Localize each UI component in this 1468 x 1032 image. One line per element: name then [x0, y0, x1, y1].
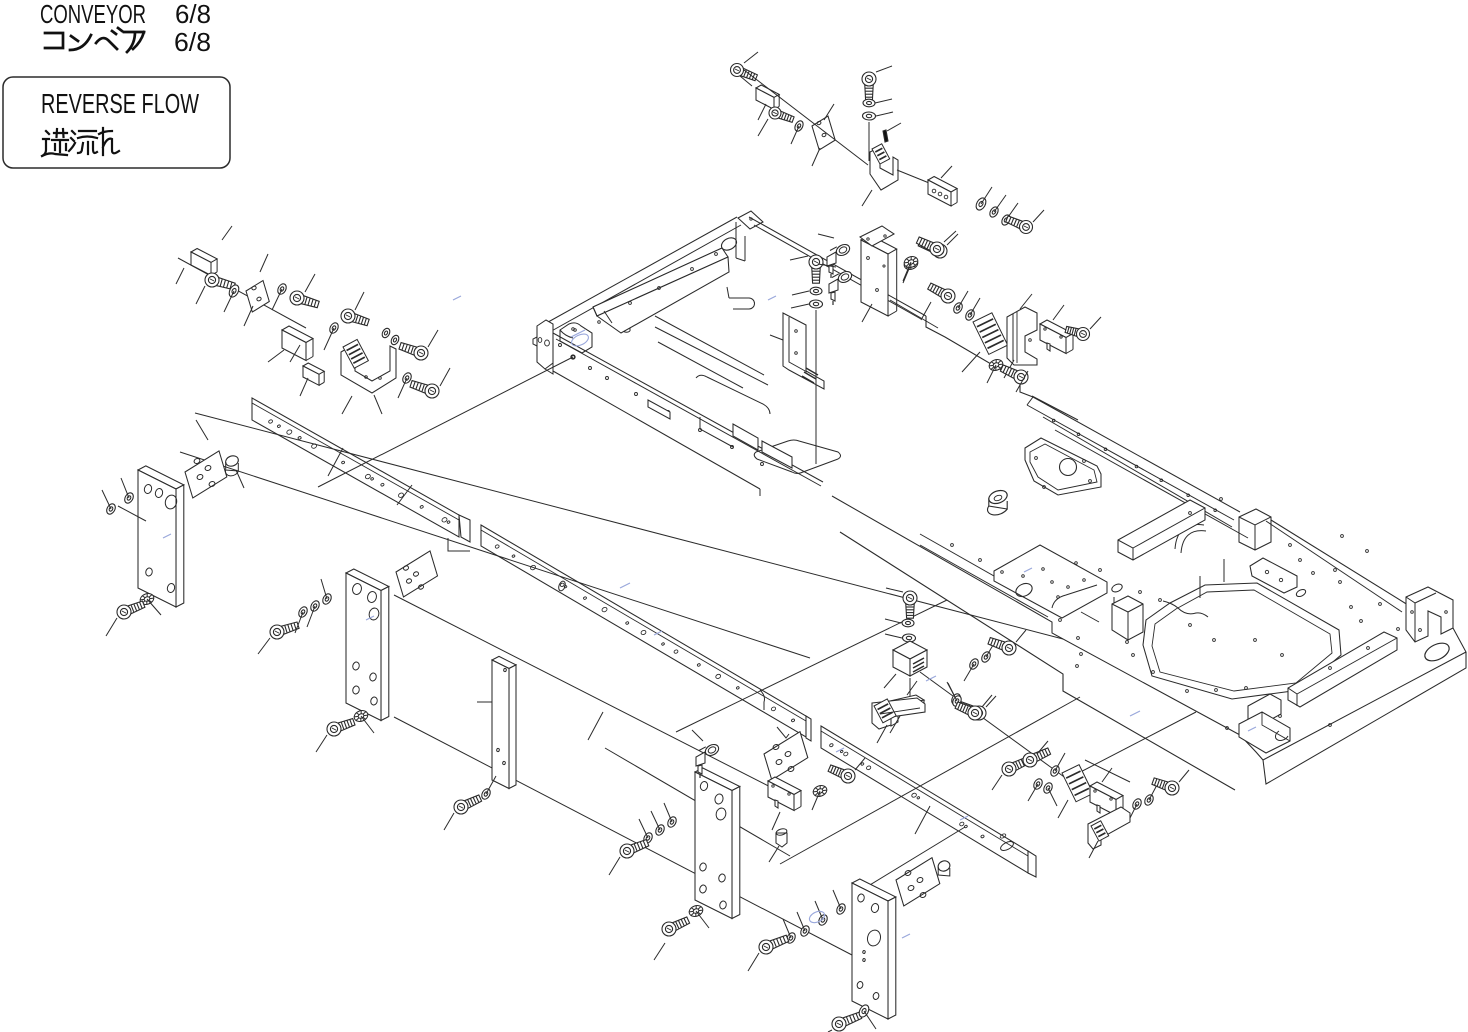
vbolt M: [903, 591, 917, 618]
connector block: [303, 363, 324, 385]
elbow V2: [829, 269, 854, 305]
bolt P4: [828, 765, 855, 783]
leader: [692, 730, 703, 741]
leader: [964, 664, 974, 681]
punched plate p5: [896, 858, 940, 906]
leader: [295, 612, 303, 633]
leader: [1053, 305, 1064, 320]
left pillar punched plate: [185, 451, 227, 498]
leader: [196, 286, 205, 304]
leader: [797, 912, 805, 931]
bolt W1: [916, 237, 944, 256]
svg-text:CONVEYOR: CONVEYOR: [40, 0, 146, 29]
svg-text:REVERSE FLOW: REVERSE FLOW: [41, 88, 199, 119]
bolt BR1: [1002, 757, 1030, 776]
bolt M2: [959, 702, 986, 720]
leader: [222, 226, 232, 240]
microswitch BR: [1090, 782, 1123, 816]
washer: [227, 283, 241, 298]
leader: [260, 254, 268, 272]
washer: [328, 321, 340, 334]
leader: [307, 606, 315, 627]
title CONVEYOR 6/8: [40, 0, 211, 29]
bolt BC: [759, 935, 789, 954]
leader: [147, 599, 161, 615]
rail leader 4: [328, 448, 343, 476]
washer: [1000, 213, 1012, 226]
leader: [176, 268, 184, 284]
washer: [974, 196, 988, 211]
bolt BL2: [662, 917, 690, 936]
fold line long shallow: [195, 413, 1063, 639]
leader: [987, 365, 996, 383]
leader: [812, 791, 820, 810]
washer: [642, 831, 654, 844]
washer: [817, 913, 829, 926]
label JP reverse-flow: [42, 128, 119, 156]
bracket box E2: [282, 326, 313, 361]
washer: [835, 902, 847, 915]
washer: [381, 327, 392, 339]
valve block V: [861, 235, 897, 316]
small cylinder: [224, 454, 240, 476]
leader: [664, 803, 672, 822]
microswitch W: [1040, 320, 1073, 354]
leader: [305, 274, 315, 292]
bracket plate E: [246, 281, 269, 313]
leader: [1033, 210, 1044, 222]
U-bracket E2: [341, 344, 396, 393]
rail leader 2: [588, 712, 603, 740]
grill zbr: [1091, 821, 1109, 841]
washer: [321, 592, 333, 605]
angle bracket M: [893, 641, 927, 676]
punched plate mid: [396, 551, 438, 597]
leader: [758, 119, 768, 136]
washer: [964, 308, 976, 321]
leader: [790, 256, 808, 260]
leader: [1055, 753, 1065, 771]
washer: [968, 657, 980, 670]
leader: [654, 943, 665, 960]
leader: [744, 52, 758, 63]
leader: [772, 812, 780, 830]
washer: [1032, 777, 1044, 790]
leader: [696, 911, 709, 928]
svg-text:6/8: 6/8: [175, 0, 211, 29]
leader: [947, 234, 958, 245]
bolt: [290, 291, 319, 308]
washer: [1131, 797, 1143, 810]
leader: [1179, 770, 1189, 782]
leader: [862, 304, 872, 322]
bolt W4: [1000, 365, 1028, 384]
leader: [812, 148, 820, 166]
leader: [855, 758, 865, 770]
leader: [1016, 371, 1028, 392]
leader: [876, 112, 893, 116]
leader: [824, 104, 834, 120]
break step between rails: [448, 538, 789, 738]
microswitch P4: [768, 777, 801, 811]
star BL2: [688, 904, 705, 919]
axis T: [744, 70, 868, 165]
leader: [609, 857, 620, 875]
leader: [986, 696, 996, 707]
washer: [793, 119, 805, 132]
leader: [982, 695, 992, 707]
small pillar leader: [477, 701, 492, 703]
leader: [324, 328, 334, 350]
leader: [1016, 630, 1026, 642]
vline M: [909, 678, 911, 696]
leader: [947, 682, 956, 699]
leader: [994, 195, 1006, 212]
washer: [988, 205, 1000, 218]
left rail: [252, 398, 470, 542]
bolt W3: [1065, 326, 1089, 340]
grill E2: [343, 339, 368, 368]
washer: [1049, 764, 1061, 777]
Z plate top: [872, 698, 925, 729]
right frame assembly: [832, 397, 1466, 790]
grill BR: [1062, 765, 1093, 802]
bent bracket W: [1007, 307, 1037, 365]
leader: [374, 395, 382, 414]
leader: [268, 350, 284, 362]
fold line to right frame: [676, 600, 947, 732]
leader: [886, 588, 903, 592]
mid pillar plate: [346, 569, 389, 721]
leader: [921, 302, 931, 320]
bolt: [410, 381, 439, 398]
switch plate T: [870, 147, 898, 190]
axis T2: [897, 170, 944, 189]
leader: [398, 378, 407, 398]
star LM2: [353, 709, 370, 724]
fold line steep from frame: [318, 357, 573, 487]
bolt T2: [769, 107, 794, 122]
pillar5 plate: [852, 879, 896, 1019]
leader: [884, 674, 896, 688]
plate T: [812, 116, 835, 150]
pin T: [883, 123, 901, 142]
leader: [903, 262, 911, 281]
leader: [106, 618, 117, 636]
bolt P4T: [955, 702, 982, 720]
fold line bottom path: [920, 672, 1067, 779]
leader: [828, 1030, 832, 1032]
washer: [785, 931, 797, 944]
leader: [1102, 768, 1112, 782]
leader: [1128, 804, 1137, 822]
U-bracket dots: [365, 376, 382, 380]
Z-bracket BR: [1088, 807, 1130, 849]
leader: [651, 811, 660, 830]
leader: [962, 352, 980, 372]
washer: [1143, 793, 1155, 806]
bolt LM2: [327, 719, 355, 736]
bolt: [205, 273, 235, 290]
leader: [444, 813, 454, 830]
leader: [748, 953, 759, 971]
axis W: [1032, 396, 1078, 420]
leader: [885, 634, 902, 638]
leader: [903, 264, 911, 283]
punched plate p4: [764, 732, 808, 780]
star LL: [139, 592, 156, 607]
leader: [783, 919, 791, 938]
left pillar plate: [138, 466, 184, 607]
middle rail: [481, 525, 811, 741]
axis V: [890, 300, 938, 328]
washer SP: [480, 787, 492, 800]
washer: [809, 300, 822, 308]
bolt SP: [454, 795, 482, 814]
leader: [321, 579, 327, 599]
leader: [890, 716, 900, 733]
washer: [1042, 781, 1054, 794]
bolt M1: [988, 638, 1016, 655]
bottom rail: [821, 726, 1036, 877]
washer: [952, 301, 964, 314]
washer: [276, 282, 288, 295]
fold line pillar2 bottom: [394, 717, 852, 955]
leader: [992, 775, 1002, 790]
bolt LL: [117, 601, 145, 619]
grill W: [973, 313, 1008, 355]
leader: [1090, 317, 1101, 329]
leader: [769, 846, 779, 862]
strip M: [890, 695, 924, 726]
bolt T1: [731, 64, 758, 81]
valve top plate: [860, 226, 894, 246]
fold line leader: [860, 827, 965, 891]
leader: [355, 292, 364, 310]
leader: [885, 619, 901, 623]
bolt V: [918, 240, 947, 258]
washer: [297, 605, 309, 618]
svg-text:6/8: 6/8: [174, 27, 211, 57]
leader: [862, 190, 872, 206]
small pillar plate: [492, 656, 516, 788]
fold line shallow 2: [180, 452, 810, 658]
washer: [950, 692, 962, 705]
leader: [986, 640, 996, 657]
bolt: [1006, 216, 1033, 234]
leader: [1006, 203, 1018, 220]
tb holes: [932, 189, 948, 199]
elbow leaders: [818, 234, 836, 267]
bolt BB: [832, 1012, 862, 1031]
leader: [1089, 841, 1098, 858]
reverse flow box: [3, 77, 230, 168]
leader: [948, 683, 957, 701]
washer: [810, 287, 822, 295]
leader: [876, 66, 892, 72]
rail leader 3: [915, 806, 930, 834]
leader: [833, 890, 841, 909]
washer: [799, 924, 811, 937]
leader: [258, 638, 270, 654]
star W: [903, 255, 920, 270]
block T: [756, 85, 779, 109]
small cylinder 2: [937, 859, 952, 876]
washer: [862, 112, 875, 120]
leader: [981, 187, 992, 204]
elbow V1: [827, 242, 852, 278]
leader: [486, 776, 496, 794]
valve dots: [867, 257, 886, 292]
leader: [758, 104, 766, 120]
leader: [244, 306, 253, 326]
bolt BL: [620, 840, 649, 858]
leader: [941, 166, 952, 178]
vbolt T: [862, 72, 876, 100]
leader: [1048, 788, 1057, 806]
grill ztop: [874, 699, 896, 723]
leader: [875, 99, 892, 103]
pillar4 plate: [695, 768, 740, 919]
leader: [1004, 360, 1014, 378]
sensor block E: [191, 249, 217, 276]
vbolt V: [809, 255, 823, 283]
leader: [792, 291, 809, 295]
leader: [1020, 294, 1032, 309]
fitting P4: [775, 828, 787, 847]
bolt BR3: [1152, 778, 1179, 795]
washer: [666, 815, 678, 828]
bolt LM: [270, 622, 299, 639]
washer: [902, 619, 914, 627]
washer: [123, 491, 135, 504]
leader: [316, 735, 327, 752]
washer: [654, 823, 666, 836]
vline V: [815, 310, 817, 464]
leader: [224, 291, 234, 312]
leader: [1028, 784, 1038, 801]
axis LL: [118, 506, 146, 521]
leader: [815, 901, 823, 920]
washer: [105, 502, 117, 515]
blue accents: [163, 296, 1256, 938]
axis line E: [178, 258, 306, 328]
fold line bottom up: [1067, 712, 1196, 779]
washer: [401, 371, 413, 384]
leader: [290, 345, 300, 362]
washer: [309, 599, 321, 612]
washer: [902, 634, 915, 642]
label REVERSE FLOW: [41, 88, 199, 119]
leader: [272, 289, 282, 310]
leader: [1058, 800, 1068, 818]
vline T: [868, 122, 870, 161]
fold line across bottom rail: [780, 697, 1080, 864]
leader: [970, 298, 980, 315]
bolt: [399, 343, 428, 360]
bolt: [341, 309, 369, 326]
leader: [877, 725, 887, 743]
bolt BR2: [1023, 748, 1051, 767]
leader: [1149, 783, 1158, 800]
leader: [342, 396, 352, 414]
star washer W: [988, 358, 1005, 373]
leader: [300, 378, 308, 396]
leader: [361, 716, 374, 733]
zplate inner: [880, 708, 920, 714]
leader: [907, 681, 917, 695]
washer: [390, 334, 401, 346]
top-centre frame: [533, 211, 1033, 496]
rail leader: [397, 485, 412, 505]
washer: [980, 650, 992, 663]
leader: [740, 76, 752, 86]
fold line lower middle: [605, 748, 790, 856]
leader: [958, 291, 968, 308]
washer: [863, 99, 875, 107]
axis BR: [1085, 760, 1130, 782]
leader: [864, 1011, 876, 1029]
leader: [428, 330, 438, 347]
leader: [440, 368, 450, 386]
bolt W2: [928, 283, 955, 303]
leader: [944, 231, 956, 242]
leader: [791, 126, 799, 144]
leader: [1037, 741, 1048, 754]
leader: [102, 490, 111, 509]
washer BB: [857, 1003, 871, 1018]
leader: [121, 478, 129, 498]
leader: [791, 304, 809, 308]
elbow P4: [696, 742, 721, 778]
fold line pillar2 top: [394, 595, 790, 797]
washer P4T: [951, 694, 963, 707]
star P4: [812, 784, 829, 799]
star V: [903, 257, 920, 272]
plate leader: [196, 420, 244, 488]
title katakana + 6/8: [45, 27, 211, 57]
grill T: [872, 144, 890, 164]
terminal block T: [928, 177, 957, 207]
leader: [639, 819, 648, 838]
valve plate dots: [867, 235, 886, 240]
